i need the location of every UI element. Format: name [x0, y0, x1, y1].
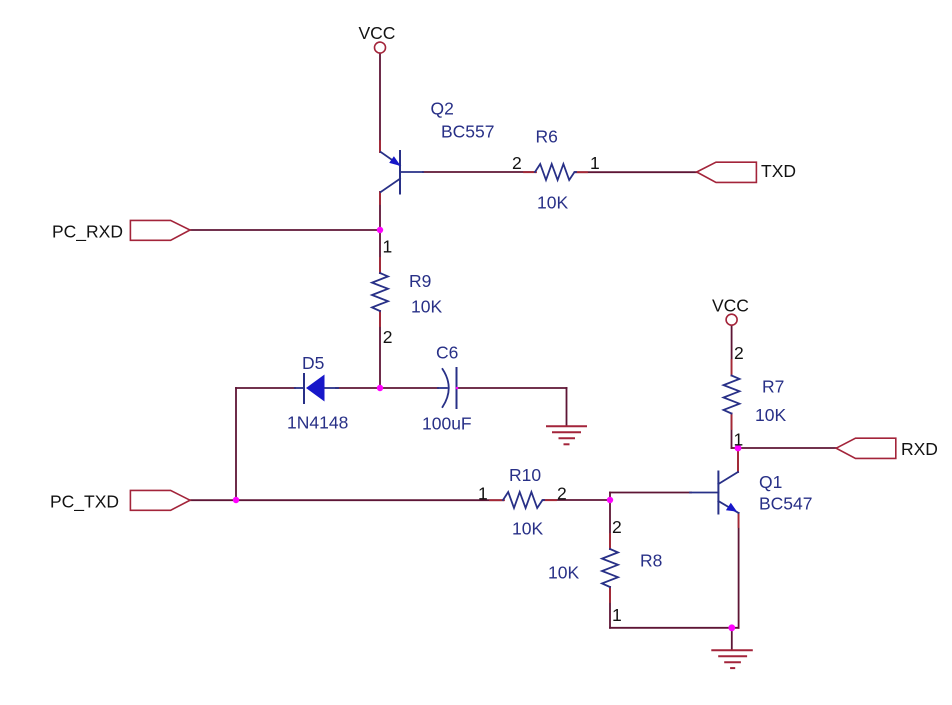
svg-text:R9: R9	[409, 271, 431, 291]
svg-text:2: 2	[383, 327, 393, 347]
svg-text:1: 1	[383, 237, 393, 257]
svg-text:BC547: BC547	[759, 494, 813, 514]
svg-text:10K: 10K	[411, 297, 442, 317]
svg-text:1: 1	[478, 484, 488, 504]
svg-text:2: 2	[734, 343, 744, 363]
svg-text:1: 1	[590, 153, 600, 173]
svg-text:1: 1	[734, 430, 744, 450]
svg-text:D5: D5	[302, 353, 324, 373]
svg-text:R6: R6	[536, 127, 558, 147]
svg-text:R8: R8	[640, 551, 662, 571]
svg-text:10K: 10K	[537, 193, 568, 213]
svg-text:PC_RXD: PC_RXD	[52, 222, 123, 243]
svg-text:1N4148: 1N4148	[287, 413, 348, 433]
svg-text:2: 2	[557, 484, 567, 504]
svg-text:TXD: TXD	[761, 161, 796, 181]
svg-text:VCC: VCC	[712, 296, 749, 316]
svg-text:R10: R10	[509, 465, 541, 485]
svg-text:BC557: BC557	[441, 122, 495, 142]
svg-text:RXD: RXD	[901, 439, 938, 459]
svg-text:1: 1	[612, 605, 622, 625]
svg-text:R7: R7	[762, 377, 784, 397]
svg-text:10K: 10K	[755, 405, 786, 425]
svg-text:10K: 10K	[512, 519, 543, 539]
svg-text:100uF: 100uF	[422, 414, 472, 434]
svg-text:VCC: VCC	[359, 23, 396, 43]
svg-text:PC_TXD: PC_TXD	[50, 492, 119, 513]
svg-text:2: 2	[612, 517, 622, 537]
svg-text:2: 2	[512, 153, 522, 173]
svg-text:Q2: Q2	[431, 99, 454, 119]
svg-text:C6: C6	[436, 343, 458, 363]
svg-text:10K: 10K	[548, 563, 579, 583]
svg-text:Q1: Q1	[759, 472, 782, 492]
